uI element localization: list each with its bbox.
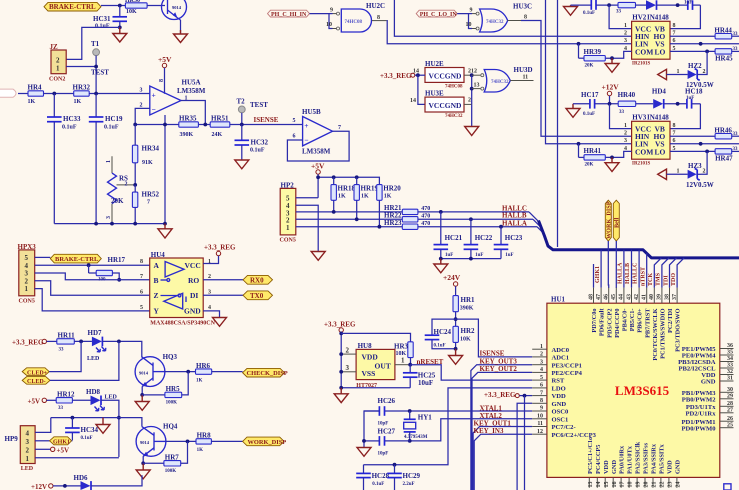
resistor HR51 (210, 115, 230, 139)
svg-text:7: 7 (140, 274, 143, 280)
wire HV3 VS right (670, 143, 739, 145)
svg-text:PE3/CCP1: PE3/CCP1 (552, 362, 582, 369)
wire HC26/HC27 left gnd (364, 411, 379, 448)
svg-text:HR32: HR32 (73, 84, 91, 92)
svg-text:TCK: TCK (648, 273, 654, 286)
svg-text:10: 10 (537, 414, 543, 420)
ground (under 9014) (174, 30, 188, 43)
svg-text:PC1/TMS/SWDIO: PC1/TMS/SWDIO (660, 308, 667, 358)
svg-text:GND: GND (701, 379, 716, 386)
svg-text:74HC32: 74HC32 (486, 20, 504, 25)
power +5V (HD8 row) (28, 397, 57, 405)
svg-text:0.1uF: 0.1uF (372, 482, 384, 487)
svg-text:9014: 9014 (172, 5, 182, 10)
svg-text:HALLC: HALLC (633, 263, 639, 284)
svg-text:3: 3 (26, 438, 30, 446)
svg-text:HR7: HR7 (165, 453, 180, 461)
svg-text:VCCGND: VCCGND (429, 72, 462, 81)
svg-text:+3.3_REG: +3.3_REG (12, 338, 44, 346)
node junctions on rail (94, 222, 98, 226)
node junction HC33 (52, 92, 56, 96)
svg-text:35: 35 (727, 350, 733, 356)
resistor HR46 (714, 126, 739, 139)
svg-text:20K: 20K (111, 197, 124, 205)
wire top-edge vertical to bus (557, 0, 559, 247)
capacitor HC29 2.2uF (387, 465, 420, 490)
svg-text:470: 470 (421, 221, 430, 227)
svg-text:2: 2 (56, 57, 60, 65)
resistor HR45 (715, 47, 739, 63)
svg-text:+24V: +24V (443, 273, 461, 282)
capacitor HC19 (89, 94, 123, 224)
wire GHK1 to HC34 bottom (71, 440, 74, 442)
svg-text:3: 3 (624, 138, 627, 144)
svg-text:OUT: OUT (375, 361, 391, 370)
svg-text:32: 32 (727, 369, 733, 375)
net label BRAKE-CTRL (lower) (50, 254, 101, 263)
node junction pin2 rail (133, 123, 137, 127)
wire HC18 to HV3 VB (670, 104, 700, 129)
svg-text:390K: 390K (460, 306, 474, 312)
svg-text:390K: 390K (180, 132, 194, 138)
svg-text:3: 3 (140, 88, 143, 94)
svg-text:8: 8 (673, 23, 676, 29)
svg-text:LM358M: LM358M (302, 148, 331, 156)
ground (HU4) (213, 318, 227, 327)
wire HR35 to HR51 (198, 124, 210, 126)
svg-text:HR39: HR39 (584, 48, 602, 56)
node junction T1/HR32 (94, 92, 98, 96)
IC HU2E VCCGND (425, 60, 464, 90)
svg-text:19: 19 (636, 482, 642, 488)
wire HP9 pin1 long (35, 457, 119, 459)
diode HD4 (636, 88, 687, 109)
resistor HR2 10K (453, 326, 475, 349)
capacitor HC18 1uF (685, 88, 703, 109)
svg-text:PA5/SSITx: PA5/SSITx (659, 444, 666, 474)
svg-text:100K: 100K (166, 401, 178, 406)
svg-text:4: 4 (208, 305, 211, 311)
resistor HR39 20K (579, 44, 606, 69)
svg-text:1: 1 (106, 160, 112, 163)
svg-text:WORK_DISP: WORK_DISP (248, 439, 287, 446)
wire HU5B feedback loop (287, 131, 349, 161)
node junction HR2 gnd (454, 347, 458, 351)
svg-text:HR3: HR3 (394, 342, 409, 350)
crystal HY1 4.579543M (404, 411, 433, 441)
svg-text:CON2: CON2 (49, 77, 65, 83)
wire HPX3 pin3 to HU4 pin7 (35, 273, 150, 280)
wire BRAKE-CTRL to HR50 (101, 5, 125, 7)
wire HV2 COM to HR39 (605, 51, 631, 58)
svg-text:LED: LED (87, 356, 100, 362)
svg-text:LED: LED (105, 395, 118, 401)
resistor HR50 (125, 0, 147, 15)
gate HU3C 74HC32 (466, 3, 533, 33)
svg-text:PA1/U0Tx: PA1/U0Tx (627, 445, 634, 474)
svg-text:20: 20 (644, 482, 650, 488)
svg-text:13: 13 (474, 83, 480, 89)
ground (HC15 row) (564, 5, 578, 15)
svg-text:33: 33 (619, 110, 625, 115)
svg-text:HZ2: HZ2 (688, 62, 702, 70)
svg-text:6: 6 (540, 383, 543, 389)
svg-text:3: 3 (208, 290, 211, 296)
svg-text:HU5B: HU5B (302, 108, 321, 116)
svg-text:8: 8 (140, 259, 143, 265)
svg-text:VCCGND: VCCGND (429, 101, 462, 110)
connector HP9 (5, 426, 36, 472)
svg-text:12: 12 (537, 429, 543, 435)
svg-text:OSC0: OSC0 (552, 409, 570, 416)
net label RX0 (243, 275, 273, 284)
resistor HR40 33 (618, 91, 636, 115)
svg-text:PE2/CCP4: PE2/CCP4 (552, 370, 583, 377)
IC HU1 LM3S615 (532, 288, 733, 488)
wire nRESET to MCU RST (410, 365, 532, 380)
node junction +12V (608, 102, 612, 106)
svg-text:VSS: VSS (362, 369, 376, 378)
wire MCU GND pin8 down (517, 403, 532, 490)
svg-text:T2: T2 (237, 98, 246, 106)
wire HU4 RO to RX0 (203, 279, 243, 281)
svg-text:46: 46 (604, 294, 610, 300)
node junctions HALL caps (439, 210, 443, 214)
svg-text:HC24: HC24 (434, 328, 452, 336)
wire HV3 HO to HR46 (670, 135, 715, 137)
svg-text:ADC0: ADC0 (552, 347, 570, 354)
svg-text:2: 2 (140, 103, 143, 109)
zener HZ2 12V0.5W (658, 62, 714, 89)
power +3.3_REG (HD7 row) (12, 338, 57, 346)
net label BRAKE-CTRL (top) (44, 2, 101, 11)
wire HQ4 base right (166, 440, 196, 442)
svg-text:470: 470 (421, 213, 430, 219)
svg-text:LO: LO (655, 147, 666, 156)
svg-text:PB4/C0-: PB4/C0- (622, 309, 629, 332)
capacitor HC23 (494, 227, 523, 259)
svg-text:8: 8 (159, 79, 165, 82)
wire HV3 LO to HR47 (670, 150, 715, 152)
svg-text:10pF: 10pF (378, 452, 389, 457)
svg-text:1: 1 (286, 224, 290, 232)
node junction HD2/HC16 (676, 3, 680, 7)
wire PH_C_LO_IN to HU3C inputs (457, 14, 472, 29)
wire HR12 to HD8 (72, 399, 90, 401)
resistor HR11 33 (57, 332, 75, 353)
svg-text:37: 37 (672, 294, 678, 300)
wire KEY_OUT2 (472, 372, 532, 490)
svg-text:HR47: HR47 (715, 155, 733, 163)
power +5V (HP9 pin2) (35, 446, 69, 454)
wire caps gnd rail (441, 258, 501, 260)
svg-text:10: 10 (326, 22, 332, 28)
svg-text:PD4/CCP0: PD4/CCP0 (614, 309, 621, 338)
node junction T2/HC32 (240, 123, 244, 127)
wire VCC down from HC15 row (609, 5, 632, 29)
svg-text:ISENSE: ISENSE (254, 116, 279, 124)
wire HP9 pin3 to GHK1 (35, 440, 49, 442)
wire HALL diagonal into bus (529, 212, 539, 222)
svg-text:OSC1: OSC1 (552, 416, 569, 423)
svg-text:24K: 24K (212, 132, 223, 138)
IC HU4 MAX488CSA (140, 251, 216, 327)
svg-text:CHECK_DISP: CHECK_DISP (247, 370, 288, 377)
svg-text:6: 6 (140, 290, 143, 296)
svg-text:1: 1 (26, 455, 30, 463)
resistor HR52 (132, 185, 159, 224)
svg-text:20K: 20K (585, 64, 594, 69)
off-page connector (left edge) (0, 89, 16, 97)
ground (HU3E) (465, 127, 479, 136)
svg-text:HR46: HR46 (714, 126, 732, 134)
svg-text:HC22: HC22 (475, 234, 493, 242)
svg-text:+: + (304, 121, 308, 130)
svg-text:nRESET: nRESET (417, 358, 444, 366)
wire TDO to pin37 (677, 258, 684, 288)
svg-text:LO: LO (655, 47, 666, 56)
svg-text:+3.3_REG: +3.3_REG (380, 72, 412, 80)
power +3.3_REG (HU8) (324, 321, 356, 388)
net port PH_C_LO_IN (416, 10, 457, 18)
svg-text:3: 3 (624, 38, 627, 44)
node junction HD4/HC18 (676, 102, 680, 106)
svg-text:4: 4 (26, 429, 30, 437)
svg-text:15: 15 (604, 482, 610, 488)
svg-text:PD5/CCP2: PD5/CCP2 (606, 309, 613, 338)
svg-text:IR2101S: IR2101S (632, 162, 651, 167)
node junction HC31/brake wire (118, 4, 122, 8)
svg-text:+5V: +5V (28, 397, 41, 405)
svg-text:HP9: HP9 (5, 435, 19, 443)
svg-text:39: 39 (657, 294, 663, 300)
wire +5V rail to HR18/19/20 (318, 177, 379, 184)
wire OSC1 row via HC27 (410, 419, 533, 441)
svg-text:+3.3_REG: +3.3_REG (324, 321, 356, 329)
power +24V (443, 273, 461, 296)
svg-text:1K: 1K (338, 194, 346, 200)
svg-text:HC17: HC17 (581, 91, 599, 99)
capacitor HC15 (0.1uF) (571, 0, 619, 16)
LED HD7 (87, 329, 106, 362)
svg-text:10K: 10K (126, 9, 137, 15)
node junction HV2 VCC feed (607, 3, 611, 7)
svg-text:0.1uF: 0.1uF (583, 112, 595, 117)
svg-text:1uF: 1uF (686, 96, 694, 101)
svg-text:3: 3 (25, 270, 29, 278)
svg-text:+5V: +5V (158, 55, 172, 64)
svg-text:HR1: HR1 (461, 296, 476, 304)
wire TCK to pin40 (654, 258, 661, 288)
wire Bell stem to MCU pin45 (615, 241, 617, 288)
net label CLED- (22, 377, 50, 386)
wire HU2E right to HU3D inputs (464, 69, 480, 105)
svg-text:18: 18 (628, 482, 634, 488)
IC HU3E VCCGND (425, 90, 464, 120)
resistor HR19 (354, 177, 379, 219)
svg-text:LM3S615: LM3S615 (615, 383, 670, 398)
svg-text:7: 7 (540, 390, 543, 396)
power +12V (HD6 row) (31, 483, 81, 490)
resistor HR21 (384, 204, 430, 215)
capacitor HC31 (93, 6, 127, 30)
wire HQ3 emitter down (141, 386, 143, 395)
gate HU2C 74HC08 (326, 2, 387, 32)
ground (HQ3) (135, 395, 149, 410)
net label TX0 (243, 291, 273, 300)
svg-text:1: 1 (677, 69, 680, 75)
wire HC16 to VB (670, 5, 700, 29)
svg-text:PB5/C1-: PB5/C1- (629, 309, 636, 332)
wire CLED+ to HD7 anode node (49, 341, 81, 371)
wire nTRST to pin41 (646, 253, 648, 287)
LED HD8 (86, 388, 118, 411)
wire HQ4 emitter down (142, 456, 144, 463)
power port (bottom right, cut) (724, 484, 731, 490)
svg-text:4.579543M: 4.579543M (404, 435, 428, 440)
svg-text:RST: RST (552, 378, 565, 385)
svg-text:8: 8 (524, 15, 527, 21)
svg-text:9: 9 (330, 8, 333, 14)
svg-text:CON5: CON5 (280, 238, 296, 244)
wire PH_C_HI_IN to HU2C inputs (310, 14, 333, 29)
svg-text:HC32: HC32 (251, 139, 269, 147)
wire +12V down to HV3 VCC (610, 104, 632, 129)
svg-text:20K: 20K (585, 163, 594, 168)
svg-text:CLED+: CLED+ (27, 370, 48, 376)
capacitor HC16 1uF (684, 0, 700, 10)
svg-text:33: 33 (59, 348, 65, 353)
net label WORK_DISP (243, 437, 287, 446)
svg-text:29: 29 (727, 394, 733, 400)
svg-text:17: 17 (620, 482, 626, 488)
svg-text:HC27: HC27 (378, 427, 396, 435)
wire HR11 to HD7 (74, 340, 92, 342)
svg-text:100K: 100K (165, 469, 177, 474)
svg-text:48: 48 (588, 294, 594, 300)
wire collector rail HQ4 (51, 418, 142, 427)
svg-text:HC23: HC23 (505, 234, 523, 242)
wire HQ3 base right (165, 371, 196, 373)
svg-text:+: + (152, 91, 156, 100)
wire top-edge vertical to HV2 HIN (394, 0, 631, 36)
svg-text:1K: 1K (197, 448, 204, 453)
svg-text:HU3E: HU3E (425, 90, 444, 98)
power +5V (opamp HU5A) (158, 55, 172, 94)
wire KEY_OUT3 (471, 365, 532, 490)
svg-text:2: 2 (624, 131, 627, 137)
wire HALLC to pin42 (638, 250, 640, 288)
wire HALLB to pin43 (631, 250, 633, 288)
resistor HR3 10K (394, 342, 413, 365)
svg-text:BRAKE-CTRL: BRAKE-CTRL (55, 256, 99, 263)
svg-text:CON5: CON5 (19, 299, 35, 305)
svg-text:2: 2 (125, 182, 128, 188)
net label Bell (vertical flag) (613, 200, 620, 241)
svg-text:IN4148: IN4148 (647, 114, 669, 122)
resistor HR44 (714, 26, 739, 39)
svg-text:9014: 9014 (139, 370, 149, 375)
svg-text:2.2uF: 2.2uF (403, 482, 415, 487)
svg-text:74HC32: 74HC32 (491, 80, 509, 85)
ground (HC21 rail) (434, 259, 448, 273)
svg-text:3: 3 (346, 364, 350, 372)
wire ISENSE to MCU ADC0 (456, 319, 533, 357)
svg-text:8: 8 (540, 398, 543, 404)
svg-text:38: 38 (664, 294, 670, 300)
svg-text:GND: GND (184, 307, 201, 316)
ground (HV3 COM) (605, 157, 619, 171)
capacitor HC32 (235, 125, 269, 161)
node junction HR41/gnd (610, 156, 614, 160)
resistor HR4 (28, 84, 44, 106)
svg-text:21: 21 (652, 482, 658, 488)
svg-text:HQ4: HQ4 (163, 422, 178, 430)
resistor HR22 (384, 211, 430, 222)
net label CLED+ (22, 368, 49, 377)
svg-text:5: 5 (25, 254, 29, 262)
svg-text:GND: GND (552, 401, 567, 408)
wire HV2 VS right (670, 43, 739, 45)
svg-text:PC5/C1+/C1o: PC5/C1+/C1o (587, 437, 594, 474)
svg-text:RX0: RX0 (250, 277, 264, 285)
svg-text:TEST: TEST (91, 69, 109, 77)
svg-text:KEY_OUT2: KEY_OUT2 (480, 365, 518, 373)
svg-text:PB0/PWM2: PB0/PWM2 (682, 396, 716, 403)
node junction JZ1/T1 (94, 65, 98, 69)
power +3.3_REG (MCU VDD) (484, 391, 532, 490)
node junction nRESET (408, 363, 412, 367)
svg-text:22: 22 (660, 482, 666, 488)
svg-text:VDD: VDD (552, 393, 567, 400)
svg-text:HV2: HV2 (632, 14, 647, 22)
wire HALLA net (418, 226, 537, 228)
ground (HQ4) (136, 463, 150, 479)
svg-text:33: 33 (727, 363, 733, 369)
svg-text:HC18: HC18 (685, 88, 703, 96)
wire HR8 to WORK_DISP (211, 440, 242, 442)
svg-text:HP2: HP2 (281, 182, 295, 190)
wire HU2E to HU3E left (418, 75, 425, 104)
svg-text:HR2: HR2 (461, 327, 476, 335)
resistor HR8 1K (196, 432, 211, 453)
svg-text:HD4: HD4 (652, 88, 667, 96)
gate HU3D 74HC32 (481, 66, 534, 92)
svg-text:PD6/Fault: PD6/Fault (599, 308, 606, 337)
svg-text:HALLA: HALLA (502, 219, 527, 227)
svg-text:47: 47 (596, 294, 602, 300)
svg-text:10pF: 10pF (378, 422, 389, 427)
svg-text:B: B (154, 276, 159, 285)
transistor 9014 (top) (162, 0, 187, 20)
svg-text:HR44: HR44 (714, 26, 732, 34)
svg-text:1: 1 (401, 356, 405, 364)
svg-text:HALLA: HALLA (618, 262, 624, 284)
svg-text:HR40: HR40 (618, 91, 636, 99)
svg-text:1uF: 1uF (505, 253, 513, 258)
svg-text:COM: COM (635, 147, 653, 156)
capacitor HC33 (47, 94, 81, 224)
wire HPX3 pin1 to HU4 pin5 (35, 289, 150, 311)
ground (HV2 COM) (605, 58, 619, 72)
svg-text:0.1uF: 0.1uF (95, 23, 110, 29)
svg-text:GHK1: GHK1 (595, 266, 601, 283)
svg-text:0.1uF: 0.1uF (104, 125, 119, 131)
svg-text:HC33: HC33 (63, 115, 81, 123)
svg-text:HD7: HD7 (88, 329, 103, 337)
svg-text:GND: GND (611, 460, 618, 474)
svg-text:HR19: HR19 (361, 185, 379, 193)
